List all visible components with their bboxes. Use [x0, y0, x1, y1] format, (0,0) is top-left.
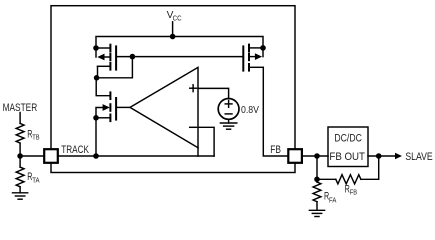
svg-text:TRACK: TRACK: [61, 144, 89, 156]
wire M3 source to TRACK line: [95, 118, 97, 156]
transistor M2 (PMOS mirror output): [243, 45, 263, 71]
wire VCC rail: [96, 37, 263, 57]
wire U1 + input to V1: [198, 88, 229, 98]
wire U1 - input to TRACK line: [198, 127, 214, 156]
wire RFB to FB node: [317, 178, 336, 180]
IC outline box: [51, 6, 295, 173]
wire FB node down: [316, 156, 318, 182]
pin TRACK: [44, 149, 58, 163]
wire M2 drain to FB: [263, 67, 288, 156]
transistor M1 (PMOS, diode-connected): [96, 45, 116, 78]
wire OUT to SLAVE: [368, 155, 396, 157]
VCC label: [167, 10, 183, 22]
resistor RTA: [16, 167, 24, 187]
node M3 source on TRACK line: [93, 153, 99, 159]
svg-text:FB OUT: FB OUT: [329, 151, 365, 163]
svg-text:DC/DC: DC/DC: [334, 133, 362, 145]
node M1 drain junction: [94, 75, 100, 81]
voltage source V1 0.8V: [218, 99, 239, 120]
label RFB: [345, 183, 357, 196]
svg-text:TB: TB: [32, 133, 39, 142]
ground below V1: [220, 119, 236, 129]
svg-text:TA: TA: [32, 176, 39, 185]
label RTB: [27, 128, 39, 141]
node M1 source: [93, 45, 99, 51]
svg-text:FA: FA: [329, 195, 336, 204]
wire M1 gate to mirror node: [116, 56, 132, 58]
node FB junction: [314, 153, 320, 159]
svg-text:FB: FB: [350, 188, 357, 197]
resistor RFB: [336, 175, 361, 184]
wire M1 drain to M3 drain: [96, 78, 109, 96]
op-amp U1: [130, 67, 198, 156]
wire MASTER to RTB: [19, 113, 21, 124]
wire tap to TRACK pin: [20, 155, 44, 157]
transistor M3 (NMOS): [96, 92, 116, 121]
pin FB: [288, 149, 302, 163]
svg-text:CC: CC: [173, 13, 183, 22]
arrow to SLAVE: [395, 153, 402, 160]
wire M3 gate lead: [116, 106, 130, 108]
node TRACK divider tap: [17, 153, 23, 159]
svg-text:FB: FB: [270, 144, 281, 156]
node VCC rail junction: [170, 34, 176, 40]
wire VCC stub: [172, 22, 174, 37]
wire mirror gate line to M2: [132, 56, 243, 58]
resistor RFA: [313, 182, 321, 202]
wire TRACK line: [58, 155, 214, 157]
label RFA: [324, 190, 336, 204]
wire M1 gate-drain tie: [97, 57, 133, 78]
node mirror gate junction: [130, 54, 136, 60]
node RFB/RFA junction: [314, 177, 320, 183]
svg-text:SLAVE: SLAVE: [405, 151, 432, 163]
wire FB to DC/DC: [302, 155, 328, 157]
wire OUT feedback down: [361, 156, 379, 179]
resistor RTB: [16, 123, 24, 143]
node M2 source: [260, 45, 266, 51]
DC/DC converter box: [328, 127, 368, 167]
wire RTB to RTA: [19, 143, 21, 167]
svg-text:0.8V: 0.8V: [241, 105, 259, 116]
ground below RTA: [13, 187, 28, 199]
node M3 source: [93, 115, 99, 121]
label RTA: [27, 171, 39, 184]
ground below RFA: [309, 202, 324, 217]
node OUT junction: [376, 153, 382, 159]
